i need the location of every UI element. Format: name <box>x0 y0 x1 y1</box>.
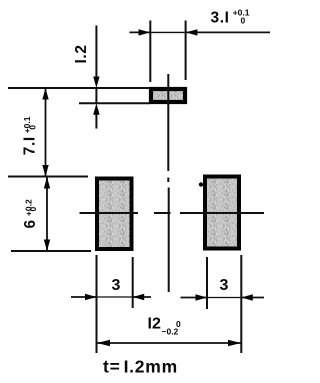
svg-text:I.2: I.2 <box>73 44 90 63</box>
lower extension lines <box>97 255 242 353</box>
dim 7.1 text (rotated) <box>22 116 39 155</box>
dim 3 left <box>71 296 151 298</box>
svg-text:t=I.2mm: t=I.2mm <box>103 357 178 377</box>
pad right <box>205 177 239 249</box>
dim 12 <box>97 342 241 344</box>
speck on right pad <box>199 182 203 186</box>
extension line top of pads <box>8 176 88 178</box>
extension line bottom of pads <box>11 250 91 252</box>
svg-text:3.I: 3.I <box>211 10 230 27</box>
svg-text:0: 0 <box>28 125 38 130</box>
dim 3 right <box>181 297 265 299</box>
component body (small top rectangle) <box>151 89 185 102</box>
svg-text:3: 3 <box>220 277 229 294</box>
pad left <box>97 179 132 250</box>
svg-text:0: 0 <box>28 207 38 212</box>
svg-text:+0.1: +0.1 <box>22 116 32 133</box>
svg-text:0: 0 <box>241 16 246 26</box>
dim 7.1: line + arrows <box>45 88 47 177</box>
svg-text:−0.2: −0.2 <box>162 327 179 337</box>
svg-text:3: 3 <box>112 277 121 294</box>
svg-text:6: 6 <box>22 220 39 229</box>
dim 6 text (rotated) <box>22 199 39 228</box>
dim 3.1 dimension line + arrows <box>130 31 271 33</box>
dim 3.1 extension lines <box>150 21 185 83</box>
extension line top of body <box>8 87 150 89</box>
horizontal centerline <box>80 212 265 214</box>
dim 1.2: vertical line + arrows <box>95 26 97 129</box>
dim 1.2 text (rotated) <box>73 44 90 63</box>
dim 6: line + arrows <box>46 177 48 251</box>
extension line bottom of body <box>79 102 150 104</box>
vertical centerline <box>167 74 169 292</box>
svg-text:7.I: 7.I <box>22 136 39 155</box>
svg-text:I2: I2 <box>148 316 161 333</box>
